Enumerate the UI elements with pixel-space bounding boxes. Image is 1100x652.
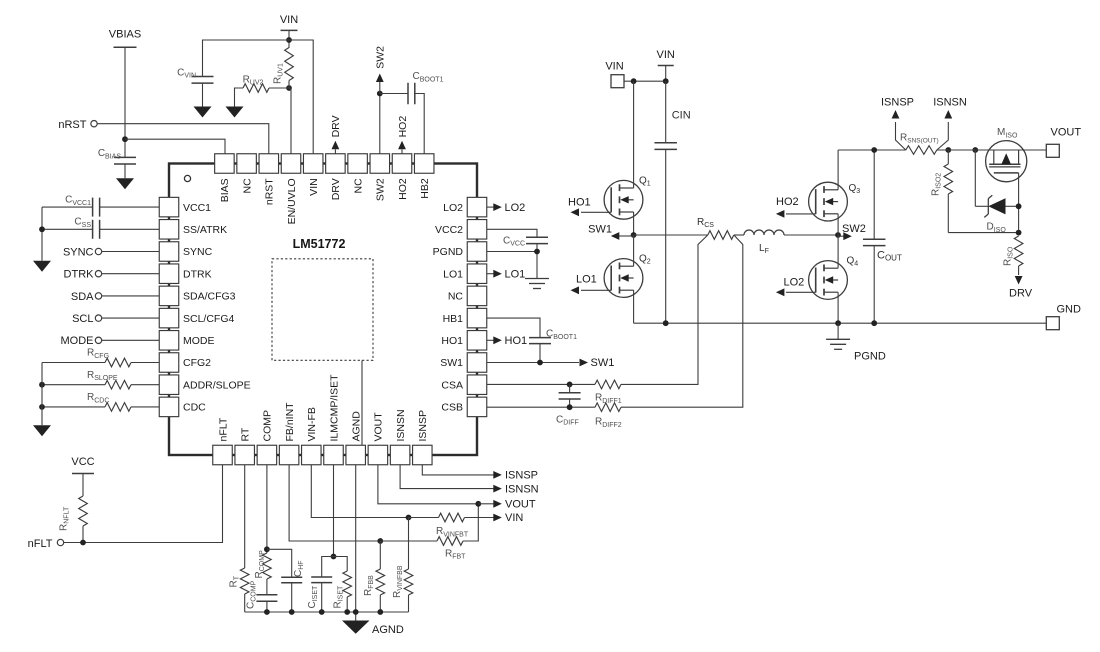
capacitor CHF branch — [267, 549, 292, 577]
node CSB/CDIFF — [567, 404, 573, 410]
svg-text:CSA: CSA — [441, 379, 463, 391]
resistor RCDC — [42, 406, 105, 408]
node CIN top — [663, 78, 669, 84]
pin HO2 (top 9) — [392, 154, 412, 174]
node RNFLT junction — [80, 540, 86, 546]
wire RUV2 leads — [269, 87, 289, 89]
svg-text:nRST: nRST — [264, 178, 276, 205]
svg-text:HB1: HB1 — [443, 313, 464, 325]
svg-text:SDA: SDA — [71, 291, 94, 303]
pin HO1 (right) — [467, 331, 487, 351]
node FB junction — [377, 538, 383, 544]
pin CSA (right) — [467, 375, 487, 395]
IC U1 LM51772 body — [169, 164, 477, 456]
svg-text:SS/ATRK: SS/ATRK — [183, 224, 227, 236]
node ISET junction — [331, 554, 337, 560]
wire COMP pin down — [266, 465, 268, 553]
svg-text:VIN: VIN — [505, 512, 523, 524]
svg-text:ISNSN: ISNSN — [933, 96, 967, 108]
node SW2/CBOOT junction — [377, 91, 383, 97]
transistor Q3 — [809, 182, 848, 221]
node CISET gnd — [319, 609, 325, 615]
transistor Q2 — [604, 259, 643, 298]
svg-text:LO2: LO2 — [784, 276, 805, 288]
wire RUV1 to EN/UVLO pin — [288, 81, 290, 89]
svg-text:VOUT: VOUT — [373, 412, 385, 442]
resistor RISET — [334, 557, 348, 572]
wire MISO gate down — [1018, 173, 1020, 233]
pin ADDR/SLOPE (left) — [159, 375, 179, 395]
capacitor CVCC — [526, 236, 548, 238]
pin ILMCMP/ISET (bottom) — [324, 445, 344, 465]
wire VIN to VIN pin — [289, 40, 313, 154]
svg-text:VOUT: VOUT — [1051, 127, 1082, 139]
wire Q4 source to rail — [837, 292, 839, 323]
arrow HO2 (top) — [401, 149, 403, 153]
wire VOUT pin down — [378, 465, 478, 504]
wire Q1 drain — [633, 81, 635, 188]
svg-text:SW2: SW2 — [375, 178, 387, 201]
svg-text:ISNSN: ISNSN — [505, 483, 539, 495]
pin CDC (left) — [159, 397, 179, 417]
svg-text:BIAS: BIAS — [219, 178, 231, 202]
wire PGND pin to node — [487, 251, 537, 253]
node Q4 bottom — [835, 320, 841, 326]
wire SW1 pin out — [487, 362, 579, 364]
wire Q4 drain to SW2 — [837, 235, 839, 268]
svg-text:VIN: VIN — [605, 61, 623, 73]
wire Q3 source to SW2 — [837, 214, 839, 235]
node EN junction — [286, 85, 292, 91]
wire FB/nINT down — [289, 465, 380, 541]
wire RISO2 to gate node — [948, 232, 1018, 234]
wire HB1 to CBOOT1 — [487, 318, 540, 338]
svg-text:VIN: VIN — [657, 49, 675, 61]
svg-text:DTRK: DTRK — [64, 269, 95, 281]
pin VIN (top 5) — [303, 154, 323, 174]
pin CFG2 (left) — [159, 353, 179, 373]
wire Q2 drain — [633, 235, 635, 266]
svg-text:SW2: SW2 — [375, 46, 387, 69]
pin HB1 (right) — [467, 308, 487, 328]
svg-text:DRV: DRV — [330, 178, 342, 200]
resistor RCOMP — [263, 553, 272, 579]
svg-text:SCL: SCL — [72, 313, 93, 325]
wire CFG resistors to ground — [41, 363, 43, 426]
pin SYNC (left) — [159, 242, 179, 262]
wire CBIAS to ground — [124, 164, 126, 178]
pin HB2 (top 10) — [414, 154, 434, 174]
svg-text:LO1: LO1 — [576, 274, 597, 286]
svg-text:VCC: VCC — [71, 456, 94, 468]
node DISO left — [972, 147, 978, 153]
svg-text:LO1: LO1 — [505, 268, 526, 280]
svg-text:HO2: HO2 — [397, 116, 409, 138]
wire SCL — [102, 317, 160, 319]
wire VIN rail top — [624, 80, 666, 82]
pin RT (bottom) — [235, 445, 255, 465]
svg-text:VCC1: VCC1 — [183, 202, 211, 214]
capacitor CISET — [322, 557, 334, 578]
svg-text:ILMCMP/ISET: ILMCMP/ISET — [328, 374, 340, 442]
svg-text:ISNSN: ISNSN — [395, 409, 407, 441]
thermal pad (dashed) — [272, 259, 373, 361]
arrow net LO1 — [487, 273, 494, 275]
arrow net DRV (down) — [1015, 276, 1023, 285]
pin NC (right) — [467, 286, 487, 306]
pin DTRK (left) — [159, 264, 179, 284]
node RFBB gnd — [377, 609, 383, 615]
arrow net VOUT — [478, 503, 493, 505]
svg-text:HO1: HO1 — [441, 335, 463, 347]
svg-text:COMP: COMP — [262, 410, 274, 442]
svg-text:MODE: MODE — [183, 335, 215, 347]
ground AGND — [342, 621, 370, 634]
top output rail — [838, 149, 906, 151]
svg-text:ISNSP: ISNSP — [417, 410, 429, 442]
svg-text:LM51772: LM51772 — [293, 237, 346, 251]
svg-text:ADDR/SLOPE: ADDR/SLOPE — [183, 379, 251, 391]
node VIN-FB junction — [406, 515, 412, 521]
svg-text:CFG2: CFG2 — [183, 357, 211, 369]
transistor Q1 — [604, 180, 643, 219]
wire SYNC — [102, 251, 160, 253]
diode DISO (zener) — [974, 150, 976, 206]
svg-text:SDA/CFG3: SDA/CFG3 — [183, 291, 236, 303]
svg-text:NC: NC — [352, 178, 364, 194]
node SW1/CBOOT1 — [537, 360, 543, 366]
ground CVCC1/CSS — [33, 261, 51, 272]
wire VBIAS to BIAS pin — [125, 139, 225, 154]
node COMP junction — [264, 546, 270, 552]
resistor RISO — [1014, 236, 1023, 266]
node AGND rail — [353, 609, 359, 615]
capacitor CBOOT2 (top) — [380, 93, 408, 95]
node SW2 — [835, 232, 841, 238]
wire VBIAS down — [124, 47, 126, 157]
capacitor CBIAS — [114, 156, 136, 158]
wire ISNSP pin out — [422, 465, 493, 475]
pin LO1 (right) — [467, 264, 487, 284]
svg-text:LO2: LO2 — [505, 202, 526, 214]
pin BIAS (top 1) — [215, 154, 235, 174]
AGND rail — [245, 611, 409, 613]
pin PGND (right) — [467, 242, 487, 262]
svg-text:HO1: HO1 — [568, 196, 591, 208]
transistor MISO — [986, 141, 1027, 182]
ground CVIN — [194, 107, 212, 118]
pin 1 indicator — [184, 175, 190, 181]
transistor Q4 — [809, 261, 848, 300]
pin COMP (bottom) — [257, 445, 277, 465]
node RSLOPE junction — [39, 382, 45, 388]
wire caps to ground — [42, 206, 93, 208]
pin nRST (top 3) — [259, 154, 279, 174]
node RISO top — [1016, 230, 1022, 236]
resistor RVINFBT — [409, 517, 439, 519]
wire nRST to pin — [97, 124, 269, 154]
pin SW2 (top 8) — [370, 154, 390, 174]
earth ground CVCC — [525, 279, 549, 289]
resistor RSNS(OUT) — [906, 146, 937, 155]
svg-text:nFLT: nFLT — [217, 417, 229, 441]
wire CSB out — [487, 406, 595, 408]
pin VOUT (bottom) — [368, 445, 388, 465]
pin VIN-FB (bottom) — [302, 445, 322, 465]
svg-text:VIN-FB: VIN-FB — [306, 407, 318, 441]
wire CSB to RCS right — [621, 235, 743, 407]
wire AGND pin down — [355, 465, 357, 621]
capacitor CVCC1 — [100, 206, 160, 208]
pin DRV (top 6) — [326, 154, 346, 174]
wire VCC2 to CVCC — [487, 229, 537, 237]
pin MODE (left) — [159, 331, 179, 351]
svg-text:FB/nINT: FB/nINT — [284, 402, 296, 442]
resistor RSLOPE — [42, 384, 105, 386]
svg-text:VIN: VIN — [308, 178, 320, 196]
wire DTRK — [102, 273, 160, 275]
resistor RNFLT — [82, 474, 84, 497]
arrow net HO1 — [487, 339, 494, 341]
resistor RUV2 — [243, 84, 269, 93]
resistor RCFG — [42, 362, 105, 364]
node SW1 — [631, 232, 637, 238]
inductor LF — [734, 234, 744, 236]
node RISET gnd — [344, 609, 350, 615]
arrow SW2 (top) — [379, 82, 381, 94]
svg-text:SYNC: SYNC — [183, 246, 213, 258]
svg-text:DRV: DRV — [330, 115, 342, 137]
pin SS/ATRK (left) — [159, 220, 179, 240]
arrow net ISNSN — [493, 485, 502, 493]
svg-text:VCC2: VCC2 — [435, 224, 463, 236]
svg-text:HO2: HO2 — [397, 178, 409, 200]
capacitor CBOOT1 — [529, 337, 551, 339]
capacitor CDIFF — [569, 384, 571, 392]
pin SW1 (right) — [467, 353, 487, 373]
ground CFG — [33, 425, 51, 436]
svg-text:nFLT: nFLT — [28, 538, 53, 550]
earth ground PGND — [837, 323, 839, 339]
svg-text:SCL/CFG4: SCL/CFG4 — [183, 313, 235, 325]
pin VCC1 (left) — [159, 197, 179, 217]
arrow net SW1 — [580, 359, 589, 367]
wire CSA to RCS left — [621, 235, 708, 384]
wire LF to SW2 node — [784, 234, 838, 236]
svg-text:SW1: SW1 — [588, 224, 612, 236]
svg-text:nRST: nRST — [58, 119, 86, 131]
pin FB/nINT (bottom) — [279, 445, 299, 465]
pin EN/UVLO (top 4) — [281, 154, 301, 174]
svg-text:CSB: CSB — [441, 402, 463, 414]
node RSNS right — [945, 147, 951, 153]
node CVCC/PGND — [534, 249, 540, 255]
svg-text:NC: NC — [241, 178, 253, 194]
node VIN — [286, 37, 292, 43]
pin CSB (right) — [467, 397, 487, 417]
node CIN bottom — [663, 320, 669, 326]
ground RUV2 — [226, 107, 244, 118]
svg-text:SYNC: SYNC — [63, 246, 94, 258]
resistor RISO2 — [947, 150, 949, 164]
wire CVIN to ground — [202, 83, 204, 106]
wire VIN-FB down — [311, 465, 408, 518]
node RCDC junction — [39, 404, 45, 410]
wire SDA — [102, 295, 160, 297]
pin SCL/CFG4 (left) — [159, 308, 179, 328]
wire MODE — [102, 339, 160, 341]
svg-text:SW1: SW1 — [591, 357, 615, 369]
svg-text:ISNSP: ISNSP — [881, 96, 914, 108]
wire ISNSN pin out — [400, 465, 493, 489]
svg-text:PGND: PGND — [433, 246, 464, 258]
wire CSA out — [487, 383, 595, 385]
node CCOMP gnd — [264, 609, 270, 615]
svg-text:RT: RT — [240, 427, 252, 441]
svg-text:HO1: HO1 — [505, 335, 528, 347]
wire RT pin down — [244, 465, 246, 568]
resistor RCS — [708, 231, 734, 240]
capacitor CSS — [100, 228, 160, 230]
wire SW1 to RCS — [634, 234, 708, 236]
wire rail to MISO — [937, 149, 1046, 151]
resistor RFBB — [379, 541, 381, 569]
svg-text:VOUT: VOUT — [505, 499, 536, 511]
svg-text:NC: NC — [448, 291, 464, 303]
wire Q2 source to rail — [633, 290, 635, 323]
svg-text:CIN: CIN — [672, 110, 691, 122]
capacitor CIN — [665, 81, 667, 143]
svg-text:AGND: AGND — [351, 411, 363, 442]
resistor RDIFF1 — [595, 380, 621, 389]
svg-text:VIN: VIN — [280, 14, 298, 26]
wire ILMCMP/ISET down — [333, 465, 335, 557]
svg-text:DTRK: DTRK — [183, 268, 212, 280]
wire nFLT to pin — [64, 542, 83, 544]
svg-text:ISNSP: ISNSP — [505, 470, 538, 482]
capacitor COUT — [873, 150, 875, 239]
resistor RUV1 — [285, 48, 294, 81]
node VOUT junction — [475, 501, 481, 507]
pin SDA/CFG3 (left) — [159, 286, 179, 306]
arrow DRV (top) — [334, 149, 336, 153]
svg-text:VBIAS: VBIAS — [109, 29, 141, 41]
wire VIN down — [288, 30, 290, 48]
svg-text:EN/UVLO: EN/UVLO — [286, 178, 298, 224]
node COUT top — [871, 147, 877, 153]
node CSA/CDIFF — [567, 382, 573, 388]
node VBIAS junction — [122, 136, 128, 142]
bottom power rail — [634, 322, 1046, 324]
pin NC (top 2) — [237, 154, 257, 174]
svg-text:LO2: LO2 — [443, 202, 463, 214]
svg-text:PGND: PGND — [854, 351, 886, 363]
wire Q1 source to SW1 node — [633, 212, 635, 235]
capacitor CCOMP — [266, 579, 268, 595]
resistor RVINFBB — [408, 518, 410, 570]
pin nFLT (bottom) — [213, 445, 233, 465]
svg-text:LO1: LO1 — [443, 268, 463, 280]
node COUT bottom — [871, 320, 877, 326]
svg-text:MODE: MODE — [61, 335, 94, 347]
svg-text:AGND: AGND — [372, 624, 404, 636]
node CHF gnd — [289, 609, 295, 615]
pin NC (top 7) — [348, 154, 368, 174]
pin ISNSP (bottom) — [413, 445, 433, 465]
wire VIN to CVIN — [203, 40, 290, 77]
wire CBOOT2 to HB2 pin — [415, 94, 424, 154]
wire Q3 drain to top rail — [837, 150, 839, 190]
resistor RT — [240, 568, 249, 594]
wire SW2 pin up — [379, 94, 381, 154]
ground CBIAS — [116, 178, 134, 189]
pin VCC2 (right) — [467, 220, 487, 240]
arrow net ISNSP — [493, 471, 502, 479]
resistor RFBT — [380, 540, 437, 542]
pin LO2 (right) — [467, 197, 487, 217]
svg-text:DRV: DRV — [1009, 287, 1033, 299]
wire thermal pad to AGND pin — [361, 360, 363, 445]
svg-text:HO2: HO2 — [776, 196, 799, 208]
node DISO/gate — [1016, 203, 1022, 209]
node Q1 drain — [631, 78, 637, 84]
pin ISNSN (bottom) — [390, 445, 410, 465]
arrow net VIN — [493, 514, 502, 522]
arrow net LO2 — [487, 206, 494, 208]
svg-text:SW1: SW1 — [440, 357, 463, 369]
svg-text:GND: GND — [1057, 304, 1082, 316]
pin AGND (bottom) — [346, 445, 366, 465]
node CSS gnd junction — [39, 226, 45, 232]
svg-text:HB2: HB2 — [419, 178, 431, 199]
capacitor CVIN — [192, 76, 214, 78]
resistor RDIFF2 — [595, 403, 621, 412]
svg-text:CDC: CDC — [183, 402, 206, 414]
